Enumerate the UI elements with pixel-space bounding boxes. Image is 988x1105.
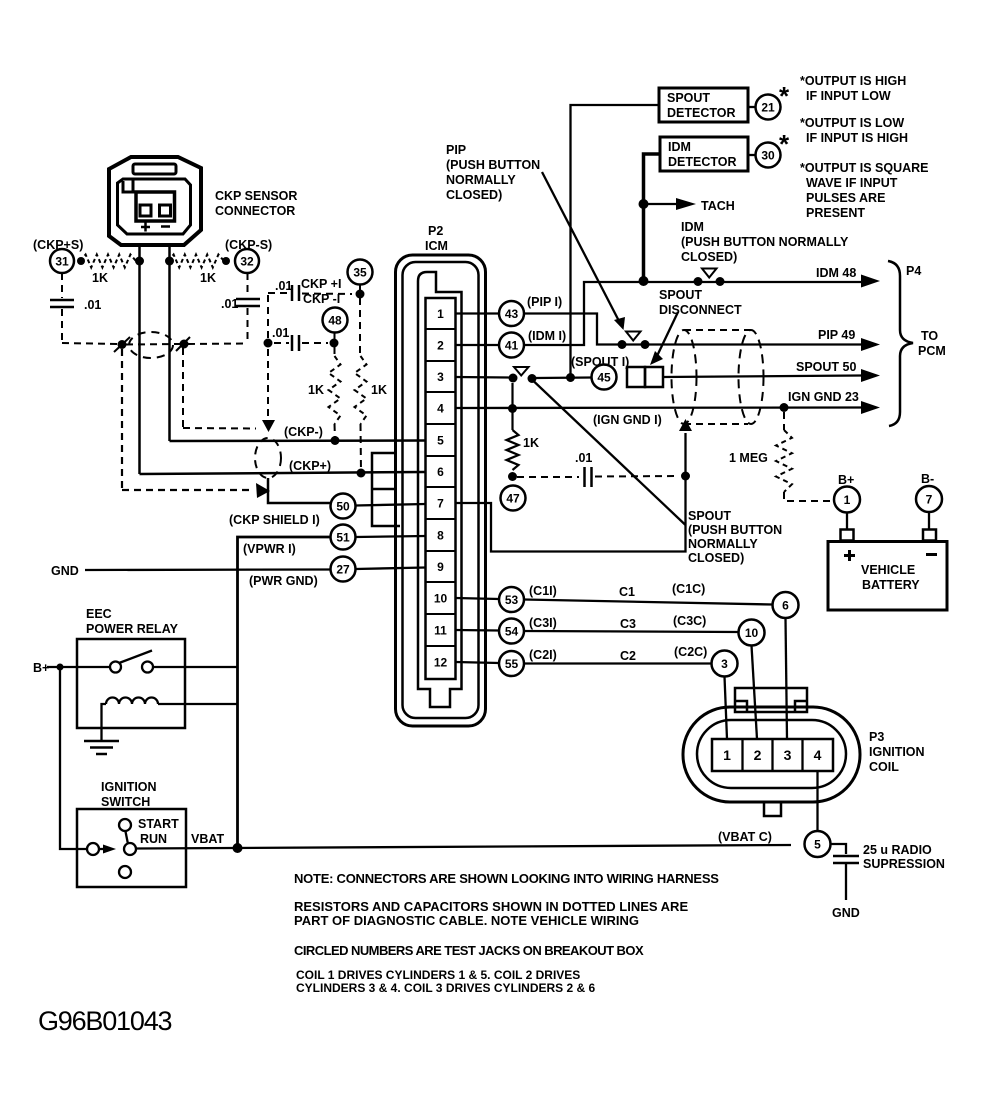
arrow SPOUT 50: [861, 369, 880, 382]
node 1K tap on IGN GND: [508, 404, 517, 413]
svg-text:55: 55: [505, 657, 519, 671]
wire (CKP-) to pin 5: [170, 439, 426, 442]
svg-text:PCM: PCM: [918, 344, 946, 358]
test jack 7 (B-): [916, 486, 942, 512]
wire VBAT: [136, 845, 791, 849]
svg-text:IDM 48: IDM 48: [816, 266, 856, 280]
wire jack50 to pin 7: [356, 504, 426, 506]
test jack 35: [348, 260, 373, 285]
coil connector housing top: [735, 688, 807, 712]
svg-text:*OUTPUT IS SQUARE: *OUTPUT IS SQUARE: [800, 161, 929, 175]
resistor 1K (CKP-S): [168, 255, 224, 268]
test jack 32: [235, 249, 259, 273]
battery post left: [841, 530, 854, 541]
svg-text:(C3I): (C3I): [529, 616, 557, 630]
svg-text:DETECTOR: DETECTOR: [668, 155, 737, 169]
svg-text:51: 51: [336, 531, 350, 545]
svg-text:(C3C): (C3C): [673, 614, 706, 628]
test jack 10: [739, 620, 765, 646]
capacitor .01 (CKP -I): [291, 335, 294, 351]
svg-text:IDM: IDM: [681, 220, 704, 234]
wire PIP jog: [524, 314, 861, 345]
svg-text:47: 47: [506, 492, 520, 506]
arrowhead PIP leader: [614, 317, 625, 330]
twist strokes: [114, 337, 130, 352]
svg-text:SPOUT: SPOUT: [688, 509, 731, 523]
svg-text:DISCONNECT: DISCONNECT: [659, 303, 742, 317]
arrowhead shield upper: [262, 420, 275, 432]
svg-text:CYLINDERS 3 & 4. COIL 3 DRIVES: CYLINDERS 3 & 4. COIL 3 DRIVES CYLINDERS…: [296, 981, 596, 995]
svg-text:SWITCH: SWITCH: [101, 795, 150, 809]
svg-text:NORMALLY: NORMALLY: [446, 173, 516, 187]
svg-text:1: 1: [437, 307, 444, 321]
wire coil to VBAT: [158, 703, 238, 705]
radio suppression capacitor: [831, 844, 847, 854]
node SPOUT detector tap: [566, 373, 575, 382]
wire pin10 to jack 53: [456, 598, 500, 599]
wire CKP +I (dashed): [268, 292, 289, 294]
relay coil: [106, 698, 158, 705]
resistor 1K (left, to CKP-): [334, 347, 336, 356]
svg-text:GND: GND: [832, 906, 860, 920]
svg-text:CIRCLED NUMBERS ARE TEST JACKS: CIRCLED NUMBERS ARE TEST JACKS ON BREAKO…: [294, 943, 644, 958]
contact SPOUT triangle: [514, 367, 529, 376]
switch blade: [126, 832, 129, 845]
svg-text:B-: B-: [921, 472, 934, 486]
relay contact right: [142, 662, 153, 673]
battery post right: [923, 530, 936, 541]
svg-text:(PUSH BUTTON NORMALLY: (PUSH BUTTON NORMALLY: [681, 235, 849, 249]
leader PIP: [542, 172, 620, 323]
svg-text:11: 11: [434, 624, 447, 638]
svg-text:10: 10: [745, 626, 759, 640]
ICM left side clip: [372, 453, 400, 526]
svg-text:SPOUT 50: SPOUT 50: [796, 360, 856, 374]
CKP minus mark: [161, 225, 170, 228]
svg-text:.01: .01: [275, 279, 292, 293]
node IGN GND / 1MEG: [780, 403, 789, 412]
test jack 27: [331, 557, 356, 582]
svg-text:(VPWR I): (VPWR I): [243, 542, 296, 556]
capacitor .01 (below jack 32): [247, 273, 249, 297]
svg-text:IF INPUT IS HIGH: IF INPUT IS HIGH: [806, 131, 908, 145]
svg-text:SPOUT: SPOUT: [667, 91, 710, 105]
test jack 41: [499, 333, 524, 358]
wire SPOUT detector feed: [571, 105, 660, 377]
svg-text:DETECTOR: DETECTOR: [667, 106, 736, 120]
leader SPOUT pushbutton: [534, 381, 686, 525]
svg-text:41: 41: [505, 339, 519, 353]
arrowhead disconnect leader: [650, 351, 663, 365]
svg-text:.01: .01: [272, 326, 289, 340]
leader SPOUT DISCONNECT: [657, 312, 678, 356]
ICM connector mid shell: [403, 262, 479, 718]
svg-text:(PUSH BUTTON: (PUSH BUTTON: [688, 523, 782, 537]
wire GND feed: [85, 568, 331, 571]
svg-text:IDM: IDM: [668, 140, 691, 154]
svg-text:3: 3: [784, 747, 792, 763]
svg-text:*: *: [779, 81, 790, 111]
wire IDM detector feed: [644, 154, 661, 281]
svg-text:7: 7: [437, 497, 444, 511]
svg-text:(C1C): (C1C): [672, 582, 705, 596]
node CKP+ / 1K: [357, 469, 366, 478]
wire SPOUT to PCM: [663, 376, 861, 378]
resistor 1K (right, to CKP+): [359, 298, 361, 356]
ground symbol (relay): [84, 740, 119, 743]
test jack 3: [712, 651, 738, 677]
svg-text:IGNITION: IGNITION: [869, 745, 925, 759]
svg-text:5: 5: [437, 434, 444, 448]
svg-text:43: 43: [505, 307, 519, 321]
svg-text:8: 8: [437, 529, 444, 543]
svg-text:.01: .01: [84, 298, 101, 312]
svg-text:30: 30: [761, 149, 775, 163]
arrow PIP 49: [861, 338, 880, 351]
svg-text:B+: B+: [838, 473, 854, 487]
svg-text:COIL: COIL: [869, 760, 899, 774]
arrowhead shield to twisted pair: [256, 483, 270, 498]
resistor 1K to jack 47: [511, 383, 513, 430]
switch arrow: [103, 845, 116, 854]
svg-text:10: 10: [434, 592, 448, 606]
svg-text:POWER RELAY: POWER RELAY: [86, 622, 179, 636]
test jack 31: [50, 249, 74, 273]
svg-text:1K: 1K: [200, 271, 216, 285]
switch terminal B: [87, 843, 99, 855]
svg-text:50: 50: [336, 500, 350, 514]
SPOUT detector box: [659, 88, 748, 122]
P3 ignition coil inner oval: [697, 720, 846, 788]
svg-text:48: 48: [328, 314, 342, 328]
IDM detector box: [660, 137, 748, 171]
contact SPOUT pushbutton: node left: [509, 374, 518, 383]
wire jack27 to pin 9: [356, 568, 426, 570]
svg-text:START: START: [138, 817, 179, 831]
svg-text:1 MEG: 1 MEG: [729, 451, 768, 465]
svg-text:*OUTPUT IS LOW: *OUTPUT IS LOW: [800, 116, 904, 130]
svg-text:VEHICLE: VEHICLE: [861, 563, 915, 577]
svg-text:(SPOUT I): (SPOUT I): [571, 355, 629, 369]
svg-text:4: 4: [437, 402, 444, 416]
arrowhead at cable shield: [679, 419, 692, 431]
svg-text:PRESENT: PRESENT: [806, 206, 865, 220]
wire B+ down to ignition switch: [60, 667, 88, 849]
test jack 48: [323, 308, 348, 333]
node 268,343: [264, 339, 273, 348]
svg-text:ICM: ICM: [425, 239, 448, 253]
CKP connector keyway notch: [123, 179, 133, 192]
svg-text:.01: .01: [575, 451, 592, 465]
svg-text:(PWR GND): (PWR GND): [249, 574, 318, 588]
battery minus: [926, 553, 937, 556]
svg-text:2: 2: [754, 747, 762, 763]
svg-text:5: 5: [814, 838, 821, 852]
svg-text:(IDM I): (IDM I): [528, 329, 566, 343]
svg-text:(VBAT C): (VBAT C): [718, 830, 772, 844]
svg-text:3: 3: [721, 657, 728, 671]
wire pin12 to jack 55: [456, 662, 500, 663]
svg-text:9: 9: [437, 560, 444, 574]
svg-text:IF INPUT LOW: IF INPUT LOW: [806, 89, 891, 103]
wire C1: [524, 600, 773, 605]
wire pin3 SPOUT: [456, 376, 510, 379]
svg-text:12: 12: [434, 656, 448, 670]
P3 ignition coil outer oval: [683, 707, 860, 802]
svg-text:(CKP-): (CKP-): [284, 425, 323, 439]
capacitor .01 (CKP +I): [291, 285, 294, 301]
CKP pin socket left: [140, 205, 151, 216]
svg-text:1: 1: [844, 493, 851, 507]
svg-text:SUPRESSION: SUPRESSION: [863, 857, 945, 871]
EEC power relay box: [77, 639, 185, 728]
svg-text:1K: 1K: [308, 383, 324, 397]
svg-text:32: 32: [240, 255, 254, 269]
P3 bottom tab: [764, 802, 781, 816]
CKP connector top slot: [133, 164, 176, 174]
wire coil to ground: [102, 704, 107, 740]
wire shield loop from node 184 (dashed): [182, 348, 184, 427]
relay contact blade: [119, 651, 152, 664]
wire VPWR feed (vertical): [238, 537, 331, 848]
contact IDM pushbutton: [694, 277, 703, 286]
svg-text:4: 4: [814, 747, 822, 763]
svg-text:6: 6: [437, 465, 444, 479]
svg-text:25 u RADIO: 25 u RADIO: [863, 843, 932, 857]
svg-text:P4: P4: [906, 264, 921, 278]
svg-text:WAVE IF INPUT: WAVE IF INPUT: [806, 176, 898, 190]
test jack 30: [756, 143, 781, 168]
svg-text:COIL 1 DRIVES CYLINDERS 1 & 5.: COIL 1 DRIVES CYLINDERS 1 & 5. COIL 2 DR…: [296, 968, 580, 982]
svg-text:31: 31: [55, 255, 69, 269]
test jack 53: [499, 587, 524, 612]
svg-text:(C2C): (C2C): [674, 645, 707, 659]
svg-text:3: 3: [437, 370, 444, 384]
node below 35: [356, 290, 365, 299]
vehicle battery box: [828, 542, 947, 611]
wire coil pin4 to VBAT: [816, 771, 818, 831]
svg-text:1K: 1K: [523, 436, 539, 450]
svg-text:CONNECTOR: CONNECTOR: [215, 204, 295, 218]
svg-text:C3: C3: [620, 617, 636, 631]
twisted pair marker (dashed ellipse): [129, 332, 173, 358]
svg-text:NORMALLY: NORMALLY: [688, 537, 758, 551]
wire pin4 IGN GND: [456, 406, 862, 409]
switch terminal START: [119, 819, 131, 831]
ICM connector outer shell: [396, 255, 486, 726]
CKP connector pin housing: [136, 192, 175, 221]
wire jack3 to coil pin 1: [725, 677, 728, 740]
node TACH tap: [639, 199, 649, 209]
svg-text:PIP: PIP: [446, 143, 466, 157]
test jack 1 (B+): [834, 487, 860, 513]
ICM pin column: [426, 298, 456, 679]
wire shield horizontal (dashed y490): [122, 489, 254, 491]
switch terminal bottom: [119, 866, 131, 878]
test jack 45: [592, 365, 617, 390]
svg-text:27: 27: [336, 563, 350, 577]
cable bundle marker (dashed cylinder): [672, 330, 697, 424]
test jack 55: [499, 651, 524, 676]
node SPOUT pushbutton riser: [681, 472, 690, 481]
node VBAT tee: [233, 843, 243, 853]
node IDM detector junction: [639, 276, 649, 286]
svg-text:6: 6: [782, 599, 789, 613]
wire CKP- sensor lead: [168, 247, 171, 441]
svg-text:EEC: EEC: [86, 607, 112, 621]
wire jack51 to pin 8: [356, 536, 426, 537]
svg-text:CLOSED): CLOSED): [681, 250, 737, 264]
resistor 1K (CKP+S): [80, 255, 136, 268]
test jack 5: [805, 831, 831, 857]
wire (CKP+) to pin 6: [140, 472, 426, 474]
contact SPOUT node right: [528, 374, 537, 383]
test jack 51: [331, 525, 356, 550]
twisted pair marker 2 (dashed ellipse): [255, 438, 281, 478]
svg-text:1K: 1K: [92, 271, 108, 285]
svg-text:PULSES ARE: PULSES ARE: [806, 191, 885, 205]
svg-text:1: 1: [723, 747, 731, 763]
svg-text:VBAT: VBAT: [191, 832, 224, 846]
battery terminal leads: [846, 513, 848, 531]
wire IDM jog up: [524, 282, 861, 345]
wire B+ feed: [47, 666, 110, 668]
SPOUT disconnect connector: [627, 367, 645, 387]
svg-text:(PUSH BUTTON: (PUSH BUTTON: [446, 158, 540, 172]
svg-text:53: 53: [505, 593, 519, 607]
svg-text:45: 45: [597, 371, 611, 385]
wire C3: [524, 631, 739, 632]
svg-text:*: *: [779, 129, 790, 159]
svg-text:(C1I): (C1I): [529, 584, 557, 598]
ignition switch box: [77, 809, 186, 887]
test jack 50: [331, 494, 356, 519]
wire jack10 to coil pin 2: [752, 646, 758, 740]
CKP connector inner cavity: [118, 179, 191, 234]
svg-text:.01: .01: [221, 297, 238, 311]
svg-text:RESISTORS AND CAPACITORS SHOWN: RESISTORS AND CAPACITORS SHOWN IN DOTTED…: [294, 899, 688, 914]
CKP pin socket right: [160, 205, 171, 216]
node CKP- / 1K: [331, 436, 340, 445]
svg-text:BATTERY: BATTERY: [862, 578, 920, 592]
svg-text:B+: B+: [33, 661, 49, 675]
node shield-left: [118, 340, 127, 349]
svg-text:CKP +I: CKP +I: [301, 277, 341, 291]
node shield-right: [180, 340, 189, 349]
wire shield bus (dashed): [62, 343, 118, 344]
CKP plus mark: [141, 223, 150, 232]
svg-text:(C2I): (C2I): [529, 648, 557, 662]
svg-text:(IGN GND I): (IGN GND I): [593, 413, 662, 427]
svg-text:PART OF DIAGNOSTIC CABLE. NOTE: PART OF DIAGNOSTIC CABLE. NOTE VEHICLE W…: [294, 913, 639, 928]
capacitor .01 (below jack 31): [61, 273, 63, 298]
svg-text:*OUTPUT IS HIGH: *OUTPUT IS HIGH: [800, 74, 906, 88]
wire shield to jack 50: [268, 478, 330, 503]
wire CKP+ sensor lead: [138, 247, 141, 474]
node B+ tee: [57, 664, 64, 671]
svg-text:PIP 49: PIP 49: [818, 328, 855, 342]
svg-text:C1: C1: [619, 585, 635, 599]
svg-text:TACH: TACH: [701, 199, 735, 213]
svg-text:(PIP I): (PIP I): [527, 295, 562, 309]
svg-text:C2: C2: [620, 649, 636, 663]
wire relay output: [153, 666, 238, 668]
svg-text:CKP -I: CKP -I: [303, 292, 340, 306]
test jack 43: [499, 301, 524, 326]
svg-text:2: 2: [437, 339, 444, 353]
arrow IDM 48: [861, 275, 880, 288]
arrowhead TACH: [676, 198, 696, 210]
svg-text:SPOUT: SPOUT: [659, 288, 702, 302]
contact PIP pushbutton: [618, 340, 627, 349]
svg-text:21: 21: [761, 101, 775, 115]
wire pin1 to jack 43: [456, 312, 500, 314]
svg-text:G96B01043: G96B01043: [38, 1006, 172, 1036]
wire shield stub from node 268 (dashed): [267, 349, 269, 418]
capacitor .01 (jack 47 line): [517, 476, 579, 478]
test jack 21: [756, 95, 781, 120]
svg-text:35: 35: [353, 266, 367, 280]
wire pin11 to jack 54: [456, 629, 500, 632]
svg-text:54: 54: [505, 625, 519, 639]
svg-text:IGNITION: IGNITION: [101, 780, 157, 794]
P4 brace: [888, 261, 913, 426]
svg-text:(CKP+): (CKP+): [289, 459, 331, 473]
wire jack6 to coil pin 3: [786, 618, 788, 739]
wire shield stub vertical x268: [267, 295, 269, 341]
svg-text:TO: TO: [921, 329, 938, 343]
svg-text:CLOSED): CLOSED): [688, 551, 744, 565]
wire shield drop (dashed x122): [121, 349, 123, 488]
node 334,343: [330, 339, 339, 348]
test jack 54: [499, 619, 524, 644]
arrow IGN GND 23: [861, 401, 880, 414]
svg-text:1K: 1K: [371, 383, 387, 397]
svg-text:7: 7: [926, 493, 933, 507]
wire TACH: [644, 203, 679, 205]
relay contact left: [110, 662, 121, 673]
resistor 1 MEG: [783, 412, 785, 430]
svg-text:P2: P2: [428, 224, 443, 238]
svg-text:NOTE: CONNECTORS ARE SHOWN LOO: NOTE: CONNECTORS ARE SHOWN LOOKING INTO …: [294, 871, 719, 886]
svg-text:P3: P3: [869, 730, 884, 744]
wire pin7 SPOUT pushbutton loop: [456, 433, 686, 552]
switch terminal common: [124, 843, 136, 855]
svg-text:CKP SENSOR: CKP SENSOR: [215, 189, 297, 203]
battery plus: [844, 550, 855, 561]
P3 pin row: [712, 739, 833, 771]
wire C2: [524, 662, 712, 664]
svg-text:RUN: RUN: [140, 832, 167, 846]
test jack 47: [501, 486, 526, 511]
svg-text:IGN GND 23: IGN GND 23: [788, 390, 859, 404]
svg-text:CLOSED): CLOSED): [446, 188, 502, 202]
CKP sensor connector shell: [109, 157, 201, 245]
svg-text:GND: GND: [51, 564, 79, 578]
svg-text:(CKP SHIELD I): (CKP SHIELD I): [229, 513, 320, 527]
ICM connector inner cavity with key notch and tab: [418, 272, 462, 707]
test jack 6: [773, 592, 799, 618]
wire pin2 to jack 41: [456, 344, 500, 346]
